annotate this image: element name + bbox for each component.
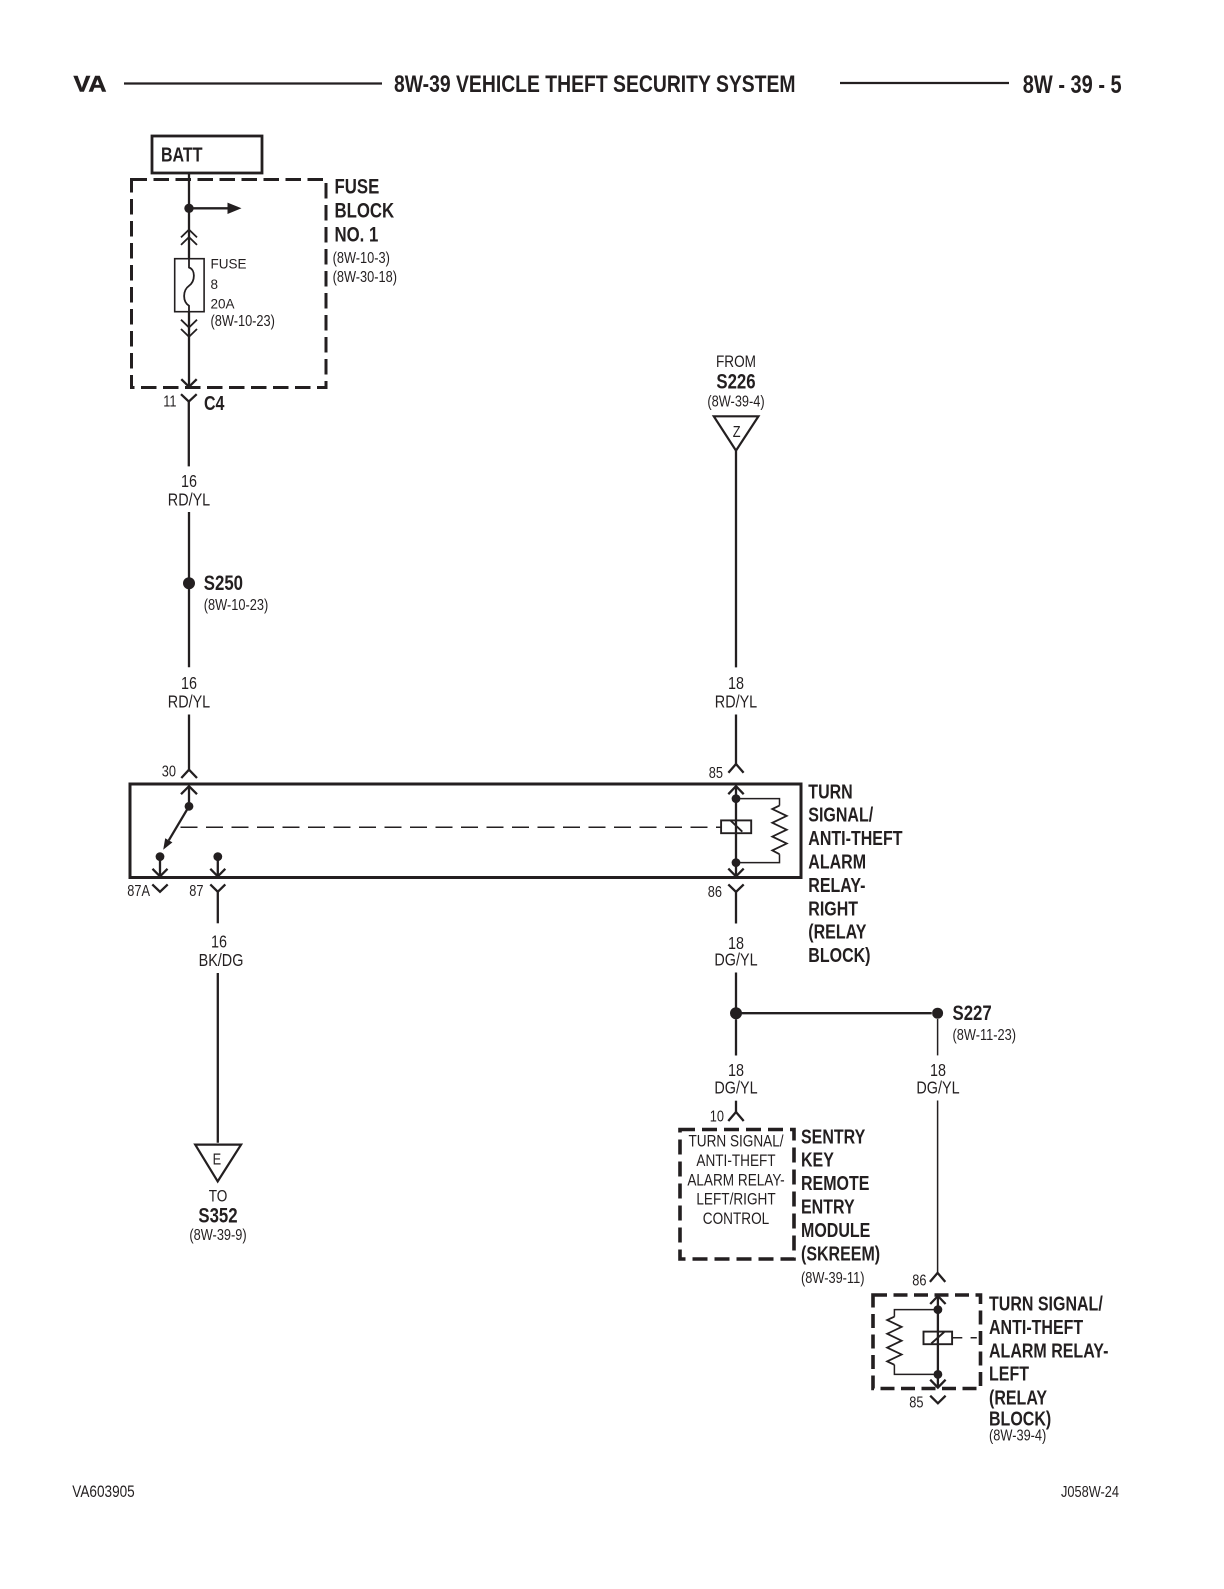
svg-text:VA: VA — [74, 72, 107, 96]
87A contact dot — [156, 852, 165, 861]
wire to relay-left pin 86 (thin) — [937, 1101, 939, 1273]
resistor zigzag — [887, 1317, 901, 1365]
svg-text:E: E — [213, 1151, 222, 1169]
pin 86 connector chevron — [912, 1272, 945, 1290]
svg-text:(8W-39-9): (8W-39-9) — [189, 1227, 246, 1245]
svg-text:BATT: BATT — [161, 144, 202, 166]
source label FROM S226 — [707, 353, 764, 411]
svg-text:(RELAY: (RELAY — [808, 921, 866, 943]
svg-text:KEY: KEY — [801, 1149, 834, 1171]
fuse F8 label — [211, 257, 275, 331]
svg-text:86: 86 — [708, 884, 722, 902]
svg-text:20A: 20A — [211, 297, 235, 312]
pin 30 arrowhead inside — [181, 786, 197, 794]
svg-text:DG/YL: DG/YL — [714, 950, 757, 970]
svg-text:MODULE: MODULE — [801, 1219, 870, 1241]
coil bottom contact dot — [934, 1370, 943, 1379]
svg-text:REMOTE: REMOTE — [801, 1172, 869, 1194]
actuator dashed line — [181, 826, 722, 828]
wire label 18 RD/YL — [715, 673, 757, 712]
wire Z down — [735, 451, 737, 668]
87 stub wire — [217, 857, 219, 877]
pin 30 contact dot — [185, 802, 194, 811]
svg-text:ALARM: ALARM — [808, 851, 866, 873]
relay coil symbol — [721, 820, 751, 833]
pin 85 arrowhead inside — [728, 786, 743, 794]
wire to ground symbol — [217, 973, 219, 1143]
wire label 16 RD/YL — [168, 673, 210, 712]
svg-text:(8W-11-23): (8W-11-23) — [953, 1027, 1016, 1045]
svg-text:NO. 1: NO. 1 — [335, 224, 379, 247]
svg-text:ANTI-THEFT: ANTI-THEFT — [989, 1316, 1083, 1338]
coil top contact dot — [934, 1305, 943, 1314]
splice S227 — [932, 1002, 1016, 1044]
destination label TO S352 — [189, 1187, 246, 1244]
svg-text:BLOCK): BLOCK) — [808, 944, 870, 966]
svg-text:S250: S250 — [204, 572, 243, 595]
svg-text:RD/YL: RD/YL — [168, 490, 210, 510]
resistor bottom link — [894, 1365, 938, 1375]
coil top contact dot — [732, 794, 741, 803]
svg-text:ANTI-THEFT: ANTI-THEFT — [696, 1152, 776, 1171]
connector chevrons into fuse — [181, 230, 197, 245]
svg-text:C4: C4 — [204, 392, 224, 414]
svg-text:BK/DG: BK/DG — [199, 950, 244, 970]
svg-text:S226: S226 — [716, 371, 755, 394]
wire fuse to C4 — [188, 312, 190, 387]
87A arrowhead — [153, 869, 168, 877]
svg-text:RD/YL: RD/YL — [715, 692, 757, 712]
fuse F8 body — [175, 259, 204, 312]
junction node dot — [184, 204, 193, 213]
svg-text:RELAY-: RELAY- — [808, 874, 865, 896]
wire to relay pin 30 — [188, 715, 190, 770]
relay coil wire 85-86 — [735, 786, 737, 876]
svg-text:10: 10 — [710, 1108, 724, 1126]
svg-text:TURN SIGNAL/: TURN SIGNAL/ — [688, 1132, 784, 1151]
svg-text:(8W-39-4): (8W-39-4) — [707, 393, 764, 411]
pin 30 connector chevron — [162, 763, 197, 781]
pin 10 connector chevron — [710, 1108, 744, 1126]
svg-text:86: 86 — [912, 1272, 926, 1290]
wire BATT to junction — [188, 173, 190, 259]
fuse block no.1 dashed box — [132, 180, 327, 388]
resistor top link — [736, 799, 780, 806]
resistor top link — [894, 1310, 938, 1317]
svg-text:SENTRY: SENTRY — [801, 1126, 865, 1148]
pin 86 arrowhead — [728, 869, 743, 877]
pin 85 arrowhead — [930, 1380, 945, 1388]
svg-text:(RELAY: (RELAY — [989, 1387, 1047, 1409]
pin 30 stub wire — [188, 786, 190, 802]
svg-text:16: 16 — [181, 471, 197, 491]
relay-left coil symbol — [924, 1332, 953, 1345]
pin 85 connector chevron — [709, 764, 744, 782]
resistor zigzag — [772, 806, 786, 855]
svg-text:(8W-10-23): (8W-10-23) — [204, 597, 268, 615]
svg-text:DG/YL: DG/YL — [916, 1078, 959, 1098]
87 arrowhead — [210, 869, 225, 877]
wire 86 down — [735, 892, 737, 924]
relay-left dashed box — [873, 1295, 981, 1389]
svg-text:DG/YL: DG/YL — [714, 1078, 757, 1098]
relay-left label — [989, 1293, 1108, 1445]
svg-text:11: 11 — [163, 393, 176, 411]
svg-text:(8W-30-18): (8W-30-18) — [333, 269, 397, 287]
splice S250 — [183, 572, 268, 614]
svg-text:8W - 39 - 5: 8W - 39 - 5 — [1023, 71, 1122, 99]
pin 87 connector chevron — [189, 883, 225, 901]
fuse block label — [333, 176, 397, 286]
wire to relay pin 85 — [735, 715, 737, 765]
fuse F8 element wave — [184, 259, 194, 312]
SKREEM label — [801, 1126, 880, 1288]
svg-text:ALARM RELAY-: ALARM RELAY- — [989, 1340, 1108, 1362]
svg-text:8W-39 VEHICLE THEFT SECURITY S: 8W-39 VEHICLE THEFT SECURITY SYSTEM — [394, 70, 796, 98]
svg-text:FUSE: FUSE — [211, 257, 247, 272]
svg-text:87A: 87A — [127, 883, 150, 901]
wire C4 to S250 — [188, 402, 190, 467]
svg-text:CONTROL: CONTROL — [703, 1210, 770, 1229]
svg-text:8: 8 — [211, 277, 219, 292]
svg-text:LEFT/RIGHT: LEFT/RIGHT — [696, 1190, 776, 1209]
pin 86 arrowhead inside — [930, 1296, 945, 1304]
SKREEM module dashed box — [680, 1130, 794, 1260]
svg-text:RIGHT: RIGHT — [808, 898, 858, 920]
svg-text:(8W-10-3): (8W-10-3) — [333, 250, 390, 268]
svg-text:(8W-39-4): (8W-39-4) — [989, 1427, 1046, 1445]
SKREEM internal label — [687, 1132, 784, 1228]
pin 85 connector chevron — [909, 1394, 945, 1412]
svg-text:30: 30 — [162, 763, 176, 781]
wire label 18 DG/YL — [916, 1060, 959, 1098]
connector chevrons below fuse — [181, 320, 197, 337]
coil stub to border — [952, 1337, 977, 1339]
connector C4 — [163, 392, 224, 414]
coil bottom contact dot — [732, 858, 741, 867]
svg-text:FROM: FROM — [716, 353, 756, 372]
header rule right — [840, 82, 1009, 84]
pin 86 connector chevron — [708, 884, 744, 902]
svg-text:18: 18 — [728, 673, 744, 693]
battery feed box BATT — [152, 136, 262, 173]
svg-text:RD/YL: RD/YL — [168, 692, 210, 712]
wire label 16 BK/DG — [199, 932, 244, 970]
svg-text:SIGNAL/: SIGNAL/ — [808, 804, 873, 826]
87A stub wire — [159, 857, 161, 877]
svg-text:TO: TO — [209, 1187, 228, 1206]
svg-text:VA603905: VA603905 — [72, 1483, 134, 1502]
wire 87 down — [217, 892, 219, 924]
wire label 16 RD/YL — [168, 471, 210, 510]
wire to S227 junction — [735, 973, 737, 1014]
svg-text:LEFT: LEFT — [989, 1363, 1029, 1385]
svg-text:85: 85 — [909, 1394, 923, 1412]
ground triangle E — [195, 1145, 241, 1182]
svg-text:85: 85 — [709, 765, 723, 783]
wire label 18 DG/YL — [714, 1060, 757, 1098]
svg-text:S227: S227 — [953, 1002, 992, 1025]
svg-text:ENTRY: ENTRY — [801, 1196, 855, 1218]
svg-text:Z: Z — [733, 424, 741, 442]
relay-right label — [808, 781, 902, 967]
87 contact dot — [213, 852, 222, 861]
arrow feed to other circuits — [189, 203, 242, 214]
svg-text:87: 87 — [189, 883, 203, 901]
wire — [188, 512, 190, 578]
svg-text:FUSE: FUSE — [335, 176, 380, 199]
svg-text:TURN: TURN — [808, 781, 852, 803]
svg-text:16: 16 — [181, 673, 197, 693]
arrowhead at fuse block exit — [181, 379, 196, 387]
svg-text:S352: S352 — [198, 1205, 237, 1228]
wire to SKREEM pin 10 — [735, 1101, 737, 1112]
relay-left coil wire 86-85 — [937, 1296, 939, 1388]
svg-text:(8W-39-11): (8W-39-11) — [801, 1270, 864, 1288]
svg-text:16: 16 — [211, 932, 227, 952]
wire S227 down (thin) — [937, 1019, 939, 1055]
svg-text:(8W-10-23): (8W-10-23) — [211, 313, 275, 331]
wire junction down — [735, 1019, 737, 1055]
svg-text:ALARM RELAY-: ALARM RELAY- — [687, 1171, 784, 1190]
wire S250 down — [188, 588, 190, 667]
wire junction to S227 — [736, 1012, 932, 1014]
source triangle Z — [714, 416, 759, 450]
pin 87A connector chevron — [127, 883, 167, 901]
svg-text:BLOCK: BLOCK — [335, 200, 395, 223]
header rule left — [124, 82, 382, 84]
svg-text:(SKREEM): (SKREEM) — [801, 1243, 880, 1265]
svg-text:ANTI-THEFT: ANTI-THEFT — [808, 827, 902, 849]
svg-text:TURN SIGNAL/: TURN SIGNAL/ — [989, 1293, 1103, 1315]
wire label 18 DG/YL — [714, 933, 757, 969]
resistor bottom link — [736, 854, 780, 862]
S227 junction dot left — [730, 1007, 742, 1019]
switch arm with arrowhead — [163, 806, 189, 850]
svg-text:J058W-24: J058W-24 — [1061, 1484, 1119, 1502]
relay block box (turn signal/anti-theft alarm relay-right) — [130, 784, 801, 878]
